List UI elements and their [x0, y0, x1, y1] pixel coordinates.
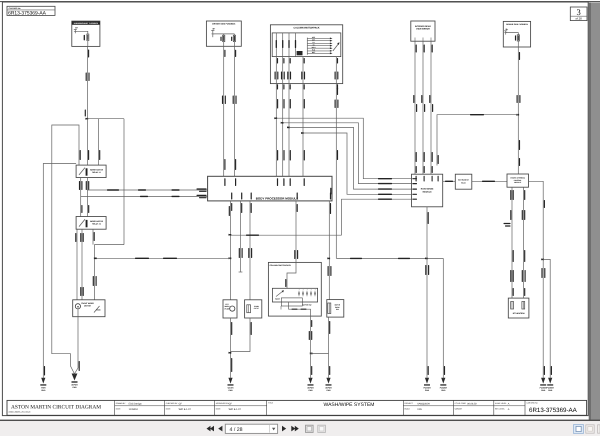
- instrument pack: [455, 174, 472, 189]
- toolbar first page button: [207, 426, 215, 432]
- bottom right scroll icon (active): [574, 425, 584, 434]
- wiper motor relay 2: [76, 217, 106, 230]
- wire branch to relay1 pin 98.5: [99, 119, 101, 165]
- BPM wire to column switchpack 2: [294, 201, 298, 263]
- wire switchpack branch to rain sensor feed 3: [289, 127, 412, 189]
- rain sense module: [412, 174, 443, 207]
- CAN wire rsm to instrument pack: [443, 181, 456, 182]
- wire relay2 to wiper motor (b): [93, 229, 95, 244]
- svg-text:VOL: VOL: [417, 408, 422, 411]
- mirror wire 3: [429, 41, 433, 174]
- svg-text:RELAY #1: RELAY #1: [92, 171, 100, 174]
- mirror wire 1: [413, 41, 417, 174]
- svg-text:WIPER: WIPER: [71, 384, 78, 387]
- pscm wire to jet heaters (a): [504, 187, 514, 298]
- wire relay to BPM speed: [81, 196, 208, 197]
- ground wire x43: [40, 164, 76, 392]
- svg-text:DRIVER SIDE FUSEBOX: DRIVER SIDE FUSEBOX: [212, 23, 236, 26]
- svg-text:EDS Design: EDS Design: [129, 402, 143, 405]
- svg-text:APPROVED BY: APPROVED BY: [216, 402, 230, 405]
- svg-text:GND: GND: [41, 389, 46, 392]
- ground wire right a: [540, 259, 548, 392]
- wire rain sensor feed 5: [342, 199, 412, 236]
- svg-text:POWER: POWER: [440, 386, 448, 389]
- bus wire motor feed to BPM: [94, 257, 231, 259]
- switchpack2 ground wire: [307, 316, 328, 392]
- fuse F4 wire from underbonnet fusebox: [85, 46, 90, 118]
- svg-text:GND: GND: [441, 389, 446, 392]
- wire relay1 to relay2 (a): [79, 178, 83, 217]
- connector drop wire: [231, 318, 252, 352]
- svg-text:GND: GND: [72, 386, 77, 389]
- svg-text:ASTON MARTIN CIRCUIT DIAGRAM: ASTON MARTIN CIRCUIT DIAGRAM: [11, 404, 101, 410]
- column switchpack pin wire 2: [281, 57, 285, 90]
- column switchpack pin wire 3: [287, 57, 291, 90]
- wire switchpack branch to rain sensor feed 2: [283, 123, 412, 184]
- svg-text:WASH/WIPE SYSTEM: WASH/WIPE SYSTEM: [324, 402, 375, 408]
- pscm right ground path: [529, 181, 546, 278]
- svg-text:GND: GND: [326, 389, 331, 392]
- wire relay coil feed c: [75, 229, 77, 300]
- svg-text:WIPER SW: WIPER SW: [303, 303, 312, 306]
- top window edge line: [0, 1, 600, 2]
- front wiper motor: [73, 300, 105, 317]
- right gray viewer background: [589, 3, 600, 422]
- interior rear view mirror: [411, 21, 435, 41]
- svg-text:CF: CF: [179, 402, 183, 405]
- svg-text:DRAWN BY: DRAWN BY: [116, 402, 126, 405]
- svg-text:GND: GND: [425, 389, 430, 392]
- wire switchpack branch to rain sensor feed 4: [303, 133, 412, 195]
- svg-text:RELAY #2: RELAY #2: [92, 223, 100, 226]
- svg-text:WIPER: WIPER: [307, 386, 314, 389]
- svg-text:RAIN SENSE: RAIN SENSE: [421, 188, 434, 191]
- svg-text:W/C 8-1-07: W/C 8-1-07: [229, 408, 242, 411]
- svg-text:REV LEVEL: REV LEVEL: [495, 407, 505, 410]
- ground wire right b: [543, 259, 554, 392]
- jet heaters: [508, 298, 529, 318]
- svg-text:W/C 8-1-07: W/C 8-1-07: [179, 408, 192, 411]
- wire relay to BPM run: [88, 189, 208, 190]
- svg-text:COLUMN SWITCHPACK: COLUMN SWITCHPACK: [269, 264, 291, 267]
- wire relay2 to wiper motor (a): [80, 229, 84, 300]
- svg-text:POWER: POWER: [547, 386, 555, 389]
- svg-text:INTERIOR REAR: INTERIOR REAR: [415, 25, 431, 28]
- toolbar background: [0, 421, 600, 436]
- junction under fuse wire: [85, 118, 124, 120]
- wire fusebox to BPM pin (right): [233, 46, 237, 176]
- wire switchpack to BPM 1: [274, 84, 278, 177]
- wiper motor relay 1: [76, 165, 106, 177]
- svg-text:Aston_Martin_v8_Circuit: Aston_Martin_v8_Circuit: [9, 410, 31, 413]
- toolbar next button: [282, 426, 286, 432]
- svg-text:4 / 28: 4 / 28: [230, 427, 243, 433]
- svg-text:VIEW MIRROR: VIEW MIRROR: [416, 27, 430, 30]
- driver side fusebox (right): [503, 21, 530, 47]
- CAN wire instrument pack to pscm: [472, 181, 507, 182]
- column switchpack (stalk): [270, 25, 342, 84]
- pscm wire to jet heaters (b): [522, 187, 526, 298]
- body processor module: [197, 176, 333, 201]
- wiper park relay box: [327, 300, 344, 318]
- wire switchpack pin5 down: [335, 84, 339, 259]
- svg-text:M: M: [77, 305, 79, 308]
- bottom right partial icon: [598, 425, 600, 433]
- svg-text:6R13-375369-AA: 6R13-375369-AA: [8, 11, 47, 17]
- BPM wire 3: [248, 201, 252, 300]
- toolbar prev button: [218, 426, 222, 432]
- svg-text:COLUMN SWITCHPACK: COLUMN SWITCHPACK: [293, 27, 319, 30]
- column switchpack pin wire 5: [335, 57, 339, 90]
- driver side fusebox (centre): [206, 21, 241, 46]
- front washer pump: [223, 300, 237, 318]
- svg-text:PACK: PACK: [461, 181, 466, 184]
- wire relay1 to relay2 (b): [86, 178, 90, 217]
- loop wire to wiper motor feed: [93, 245, 124, 300]
- svg-text:SW: SW: [336, 308, 339, 311]
- svg-text:PWR: PWR: [41, 386, 46, 389]
- wire switchpack to BPM 2: [281, 84, 285, 177]
- wire switchpack to BPM 3: [287, 84, 291, 177]
- bus wire BPM to rain sense feed: [231, 235, 342, 236]
- svg-text:CHECKED BY: CHECKED BY: [166, 402, 178, 405]
- svg-text:DATE: DATE: [216, 407, 221, 410]
- svg-text:GND: GND: [308, 389, 313, 392]
- svg-text:MODULE: MODULE: [423, 191, 433, 194]
- svg-text:WASH: WASH: [228, 386, 234, 389]
- svg-text:CF: CF: [229, 402, 233, 405]
- underbonnet fusebox: [72, 21, 100, 46]
- svg-text:MOTOR: MOTOR: [84, 304, 91, 307]
- title block: [7, 400, 587, 415]
- svg-text:DATE: DATE: [166, 407, 171, 410]
- washer pump ground wire: [228, 318, 234, 392]
- toolbar page field: [225, 424, 277, 433]
- svg-text:GND: GND: [541, 389, 546, 392]
- power steering control module: [507, 174, 529, 187]
- sheet number box: [570, 7, 587, 21]
- svg-text:GND: GND: [548, 389, 553, 392]
- ground branch wire: [440, 258, 448, 392]
- svg-text:UNDERBONNET FUSEBOX: UNDERBONNET FUSEBOX: [74, 22, 99, 25]
- svg-text:WIPER: WIPER: [325, 386, 332, 389]
- svg-text:00.06.50: 00.06.50: [467, 402, 477, 405]
- svg-text:VARIANT: VARIANT: [455, 407, 464, 410]
- wire switchpack branch to rain sensor feed 1: [276, 118, 411, 179]
- svg-text:CAR DRG No: CAR DRG No: [527, 401, 538, 404]
- wire junction to relay1 coil: [87, 119, 89, 165]
- svg-text:BUILD: BUILD: [405, 407, 411, 410]
- bottom page shadow line: [0, 420, 600, 422]
- svg-text:of 28: of 28: [575, 17, 582, 21]
- BPM wire to washer pump: [229, 201, 233, 300]
- loop wire x124 down: [123, 119, 125, 245]
- svg-text:CAR DRG No: CAR DRG No: [9, 7, 22, 10]
- toolbar page layout icon 1: [306, 425, 314, 432]
- mirror wire 2: [421, 41, 425, 174]
- wire switchpack to BPM 4: [301, 84, 305, 177]
- feed loop from x51.8: [52, 125, 81, 358]
- svg-text:PROJECT: PROJECT: [405, 402, 414, 405]
- svg-text:GND: GND: [228, 389, 233, 392]
- svg-text:TITLE: TITLE: [268, 402, 274, 405]
- svg-text:STYLE CODE: STYLE CODE: [455, 402, 467, 405]
- column switchpack (wash/wipe switch): [268, 262, 321, 316]
- BPM wire right to wiper relay box: [327, 201, 331, 300]
- column switchpack pin wire 1: [275, 57, 279, 90]
- wiper motor ground funnel: [71, 317, 80, 390]
- park relay ground wire: [325, 317, 332, 392]
- svg-text:JET HEATERS: JET HEATERS: [512, 312, 525, 315]
- svg-text:DRIVER SIDE FUSEBOX: DRIVER SIDE FUSEBOX: [506, 23, 528, 26]
- car drg no box: [7, 6, 55, 16]
- svg-text:11/28/04: 11/28/04: [129, 408, 139, 411]
- toolbar last page button: [291, 426, 299, 432]
- bus wire right section: [336, 257, 443, 259]
- BPM wire to connector: [239, 201, 243, 272]
- svg-text:VANQUISH: VANQUISH: [417, 402, 430, 405]
- svg-text:BODY PROCESSOR MODULE: BODY PROCESSOR MODULE: [256, 196, 298, 200]
- toolbar page layout icon 2: [318, 425, 326, 432]
- svg-text:3: 3: [576, 7, 580, 17]
- svg-text:DATE: DATE: [116, 407, 121, 410]
- rain sense module output wire: [423, 207, 431, 392]
- svg-text:INSTRUMENT: INSTRUMENT: [458, 179, 470, 182]
- column switchpack pin wire 4: [301, 57, 305, 90]
- wire mirror-can to fusebox junction: [437, 114, 518, 166]
- inline connector box: [245, 300, 262, 318]
- svg-text:6R13-375369-AA: 6R13-375369-AA: [529, 407, 578, 414]
- wire fusebox to power steering module: [516, 47, 520, 174]
- bottom right scroll icon (inactive): [586, 425, 594, 433]
- svg-text:C0707: C0707: [254, 307, 259, 310]
- svg-text:ISSUE LEVEL: ISSUE LEVEL: [495, 402, 507, 405]
- svg-text:POWER: POWER: [423, 386, 431, 389]
- wire fusebox to BPM pin (left): [222, 46, 226, 176]
